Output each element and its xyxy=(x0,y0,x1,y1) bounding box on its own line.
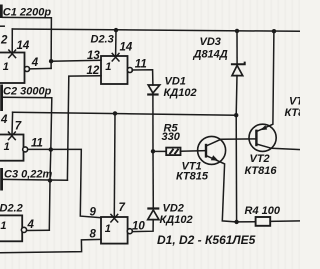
diode VD2 cathode bar xyxy=(147,207,159,209)
wire D2.2 output xyxy=(27,229,50,231)
svg-text:9: 9 xyxy=(90,207,97,219)
diode VD1 triangle xyxy=(148,85,160,93)
pin 7 power X mark on D2.4 xyxy=(111,214,118,222)
wire stub at left edge xyxy=(0,25,4,27)
capacitor C3 plate xyxy=(0,168,3,191)
svg-text:14: 14 xyxy=(17,40,30,52)
svg-text:VD1: VD1 xyxy=(165,76,186,88)
svg-text:1: 1 xyxy=(0,220,6,232)
svg-text:11: 11 xyxy=(31,138,43,150)
wire C3 to pin 12 riser xyxy=(3,178,68,181)
transistor VT2 circle xyxy=(249,124,276,151)
wire R4 to right edge xyxy=(270,220,300,223)
pin 7 power X mark on D1.3 xyxy=(9,132,16,140)
resistor R5 body xyxy=(166,148,180,156)
pin 14 power X mark on D2.3 xyxy=(112,53,119,61)
wire VDD top bus xyxy=(12,29,300,31)
node R4 junction xyxy=(234,220,238,224)
wire C1 to node xyxy=(3,17,52,68)
capacitor C1 plate xyxy=(0,5,3,19)
node VD3 top on VDD bus xyxy=(235,29,239,33)
svg-text:C1 2200p: C1 2200p xyxy=(3,6,52,18)
node A junction xyxy=(151,149,155,153)
svg-text:D1, D2 - К561ЛЕ5: D1, D2 - К561ЛЕ5 xyxy=(157,233,256,247)
node VT2 emitter on VDD bus xyxy=(272,29,276,33)
svg-text:C2 3000p: C2 3000p xyxy=(3,86,52,98)
wire D1.2 output xyxy=(30,67,51,70)
pin 14 power X mark on D1.2 xyxy=(9,50,16,58)
svg-text:4: 4 xyxy=(27,219,35,231)
wire C2 to D1.3 output node xyxy=(3,97,52,149)
svg-text:11: 11 xyxy=(135,59,147,71)
gate D1.3 output inversion bubble xyxy=(23,147,28,152)
svg-text:1: 1 xyxy=(3,61,9,73)
capacitor C2 plate xyxy=(0,85,3,112)
node D2.3 pin 14 on VDD bus xyxy=(114,28,118,32)
svg-text:R4 100: R4 100 xyxy=(245,205,281,217)
wire D1.3 pin 7 drop xyxy=(11,112,14,134)
resistor R5 hatch xyxy=(170,149,179,154)
wire VD1 cathode down to node A xyxy=(152,95,154,152)
node C1 junction xyxy=(49,59,53,63)
svg-text:КТ815: КТ815 xyxy=(176,171,209,183)
svg-text:КТ816: КТ816 xyxy=(245,165,278,177)
svg-text:VT2: VT2 xyxy=(250,153,270,165)
svg-text:14: 14 xyxy=(120,42,133,54)
svg-text:13: 13 xyxy=(87,50,100,62)
wire D2.3 output to VD1 anode xyxy=(132,70,153,85)
wire GND middle bus xyxy=(13,112,237,115)
VT2 emitter arrow xyxy=(260,125,267,130)
wire D2.3 pin 12 to C3 node xyxy=(67,76,101,180)
VT1 emitter arrow xyxy=(211,155,219,160)
svg-text:4: 4 xyxy=(0,114,8,126)
wire D1.2 pin 14 drop xyxy=(11,29,13,53)
svg-text:8: 8 xyxy=(90,228,97,240)
svg-text:1: 1 xyxy=(105,223,111,235)
wire VT1 collector to VT2 base xyxy=(206,139,256,146)
zener VD3 triangle xyxy=(232,65,243,75)
wire VD3 anode to GND bus xyxy=(235,76,238,116)
svg-text:1: 1 xyxy=(105,61,111,73)
resistor R4 body xyxy=(256,217,271,226)
wire D1.3 output to D2.4 pin 9 xyxy=(28,149,101,217)
zener VD3 cathode bar xyxy=(231,62,245,65)
svg-text:VD2: VD2 xyxy=(163,203,184,215)
gate D1.2 output inversion bubble xyxy=(25,67,30,72)
svg-text:1: 1 xyxy=(4,141,10,153)
gate D1.3 body xyxy=(0,135,24,161)
wire GND rail drop to R4 node xyxy=(235,115,237,222)
gate D2.3 body xyxy=(101,56,128,84)
wire D2.4 output to VD2 anode xyxy=(133,220,153,232)
svg-text:D2.2: D2.2 xyxy=(0,203,23,215)
svg-text:Д814Д: Д814Д xyxy=(193,49,228,61)
wire node A to R5 xyxy=(153,150,166,152)
gate D2.3 output inversion bubble xyxy=(127,68,132,73)
svg-text:VD3: VD3 xyxy=(200,36,221,48)
wire VT2 collector to right edge xyxy=(256,144,300,150)
transistor VT1 circle xyxy=(198,136,226,164)
svg-text:КД102: КД102 xyxy=(160,214,193,226)
node VD3 bottom on GND bus xyxy=(234,113,238,117)
transistor VT2 base bar xyxy=(255,130,257,147)
node D1.3 output junction xyxy=(49,147,53,151)
wire R5 to VT1 base xyxy=(181,150,206,153)
transistor VT1 base bar xyxy=(205,144,207,158)
wire D2.4 pin 7 drop xyxy=(113,113,116,216)
svg-text:VT: VT xyxy=(289,96,300,108)
wire VT1 emitter to R4 node xyxy=(206,156,237,222)
node D2.4 pin 7 on GND bus xyxy=(113,111,117,115)
node C3 junction xyxy=(48,178,52,182)
gate D1.2 body xyxy=(0,53,25,84)
gate D2.2 body xyxy=(0,215,22,241)
svg-text:4: 4 xyxy=(31,57,39,69)
svg-text:КТ8: КТ8 xyxy=(285,107,301,119)
svg-text:2: 2 xyxy=(0,34,8,46)
svg-text:КД102: КД102 xyxy=(164,87,197,99)
svg-text:330: 330 xyxy=(162,131,181,143)
diode VD1 cathode bar xyxy=(147,93,158,95)
wire D2.3 pin 14 drop xyxy=(115,30,117,56)
svg-text:D2.3: D2.3 xyxy=(91,34,114,46)
wire bottom bus to D2.4 pin 8 xyxy=(0,239,101,252)
wire VDD bus to VD3 cathode xyxy=(236,31,238,64)
wire branch down to D2.2 output xyxy=(49,150,51,231)
diode VD2 triangle xyxy=(148,210,159,220)
svg-text:7: 7 xyxy=(119,202,126,214)
gate D2.4 body xyxy=(101,217,128,244)
wire to D2.3 pin 13 xyxy=(51,59,101,62)
wire VT2 emitter up to VDD bus xyxy=(256,31,274,131)
gate D2.4 output inversion bubble xyxy=(127,229,132,234)
wire node to R4 xyxy=(237,221,256,223)
svg-text:7: 7 xyxy=(15,121,22,133)
gate D2.2 output inversion bubble xyxy=(21,227,26,232)
wire VD2 cathode up to node A xyxy=(152,151,154,208)
